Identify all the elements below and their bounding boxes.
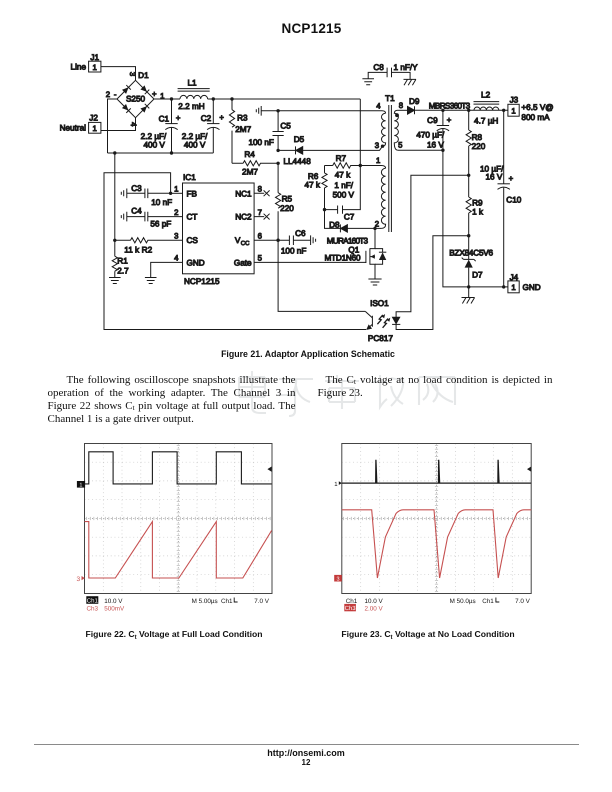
output rail D9 to J3: [415, 109, 508, 111]
svg-text:-: -: [114, 90, 117, 99]
ground below R1: [109, 278, 121, 284]
svg-text:Neutral: Neutral: [60, 124, 87, 133]
svg-text:5: 5: [258, 254, 263, 263]
VCC line down to opto collector: [278, 240, 365, 311]
svg-text:56 pF: 56 pF: [150, 220, 171, 229]
svg-text:MBRS360T3: MBRS360T3: [429, 101, 471, 110]
svg-text:Ch1: Ch1: [221, 598, 233, 605]
node dot R8 top: [467, 109, 470, 112]
diode D8 MURA160T3: [325, 210, 382, 246]
body text right column: [318, 374, 553, 400]
wire pin 5 to C9 bottom: [398, 149, 443, 151]
svg-text:4: 4: [174, 254, 179, 263]
inductor L2: [474, 90, 500, 125]
scope22 ch1 square wave: [85, 452, 272, 484]
svg-text:J3: J3: [510, 96, 519, 105]
resistor R2: [115, 238, 183, 255]
svg-text:GND: GND: [187, 258, 205, 267]
capacitor C10: [480, 110, 522, 287]
connector J3: [508, 96, 554, 122]
node dot rail/R3 top: [230, 97, 233, 100]
svg-text:47 k: 47 k: [335, 171, 351, 180]
svg-text:Ch1: Ch1: [482, 598, 494, 605]
svg-text:1: 1: [79, 483, 82, 489]
svg-text:8: 8: [399, 101, 403, 110]
pin 4 GND wire: [151, 262, 183, 277]
node dot C10 bottom: [502, 285, 505, 288]
svg-text:IC1: IC1: [183, 173, 196, 182]
svg-text:D1: D1: [138, 71, 149, 80]
svg-text:C6: C6: [295, 229, 306, 238]
svg-text:+: +: [447, 115, 452, 124]
node dot R4/VCC line: [276, 162, 279, 165]
scope23 ch3 marker: [334, 575, 342, 582]
scope23 center graticule: [342, 444, 531, 594]
svg-text:7.0 V: 7.0 V: [254, 598, 270, 605]
bridge diode lower-left: [122, 104, 129, 111]
svg-text:C7: C7: [344, 213, 355, 222]
svg-text:Line: Line: [71, 63, 87, 72]
scope22 readout line 1: [86, 596, 98, 604]
node dot R8 bottom: [467, 174, 470, 177]
svg-text:J4: J4: [510, 273, 519, 282]
resistor R6: [305, 166, 328, 210]
svg-text:GND: GND: [523, 283, 541, 292]
svg-text:T1: T1: [385, 94, 395, 103]
svg-text:1 k: 1 k: [472, 208, 484, 217]
ground at Q1 source: [368, 279, 381, 285]
footer url: [0, 748, 612, 758]
earth ground at C8 left: [362, 79, 374, 85]
figure 22 caption: [56, 629, 292, 639]
node dot D7 bottom: [467, 285, 470, 288]
svg-text:J1: J1: [90, 53, 99, 62]
svg-text:LL4448: LL4448: [283, 157, 311, 166]
svg-text:2M7: 2M7: [235, 125, 251, 134]
svg-text:7: 7: [258, 208, 262, 217]
capacitor C6: [278, 229, 310, 255]
svg-text:+: +: [152, 89, 157, 98]
footer rule: [34, 744, 579, 745]
scope figure 23: [334, 444, 531, 613]
node dot rail/C2 top: [212, 97, 215, 100]
svg-text:CS: CS: [187, 236, 199, 245]
resistor R5: [276, 163, 295, 240]
svg-text:L1: L1: [187, 78, 197, 87]
connector J4: [508, 273, 541, 293]
page title NCP1215: [6, 21, 612, 36]
scope23 border: [342, 444, 531, 594]
svg-text:L2: L2: [481, 90, 491, 99]
chassis ground at C8 right: [404, 79, 417, 85]
node dot VCC pin / C6: [276, 239, 279, 242]
inductor L1: [178, 78, 210, 111]
IC1 NCP1215: [174, 173, 262, 286]
wire HV rail down to R7 node: [359, 99, 361, 166]
svg-text:800 mA: 800 mA: [521, 113, 550, 122]
node dot FB: [169, 192, 172, 195]
svg-text:10 nF: 10 nF: [151, 198, 172, 207]
node dot T1 pin2 / Q1 drain: [373, 227, 376, 230]
svg-text:MTD1N60: MTD1N60: [325, 253, 361, 262]
svg-text:1: 1: [93, 124, 97, 133]
node dot C5 top: [276, 109, 279, 112]
svg-text:1: 1: [334, 481, 338, 488]
svg-text:S250: S250: [126, 94, 146, 103]
svg-text:7.0 V: 7.0 V: [515, 598, 531, 605]
svg-text:16 V: 16 V: [485, 173, 502, 182]
resistor R7: [325, 154, 361, 180]
node dot rail/C1: [170, 151, 173, 154]
svg-text:11 k: 11 k: [124, 245, 140, 254]
pin 7 NC2 wire with X: [254, 214, 270, 220]
wire pin 8 to D9: [398, 109, 408, 111]
svg-text:1: 1: [174, 185, 178, 194]
node dot R9 bottom: [467, 234, 470, 237]
bridge diode lower-right: [140, 106, 147, 113]
svg-text:100 nF: 100 nF: [281, 246, 307, 255]
svg-text:C1: C1: [159, 114, 170, 123]
wire J2 to bridge AC2: [101, 118, 136, 131]
svg-text:1 nF/Y: 1 nF/Y: [394, 63, 419, 72]
svg-text:C3: C3: [131, 184, 142, 193]
svg-text:2: 2: [106, 90, 110, 99]
svg-text:R8: R8: [472, 133, 483, 142]
svg-text:NCP1215: NCP1215: [184, 277, 220, 286]
node dot C10 top: [502, 109, 505, 112]
top HV rail (bridge + to L1): [154, 98, 180, 100]
svg-text:10.0 V: 10.0 V: [365, 598, 384, 605]
figure 21 caption: [2, 349, 612, 359]
bridge diode upper-right: [140, 85, 147, 92]
svg-text:+: +: [176, 114, 181, 123]
pin 6 VCC wire: [254, 239, 278, 241]
T1 primary winding 1-2: [381, 168, 385, 228]
bridge rectifier D1 S250: [106, 71, 165, 127]
wire node Y to opto LED cathode: [396, 236, 469, 330]
light arrows: [377, 315, 382, 324]
svg-text:500 V: 500 V: [333, 190, 355, 199]
footer page number: [0, 758, 612, 767]
svg-text:J2: J2: [89, 114, 98, 123]
FB loop wire (opto emitter to FB): [104, 173, 366, 330]
svg-text:Ch3: Ch3: [87, 605, 99, 612]
MOSFET Q1 MTD1N60: [325, 228, 387, 279]
SCOPES: [77, 444, 532, 613]
svg-text:47 k: 47 k: [305, 181, 321, 190]
svg-text:3: 3: [128, 72, 137, 76]
capacitor C4: [121, 206, 171, 228]
body text left column: [48, 374, 296, 427]
node dot C7/R6/D8: [323, 208, 326, 211]
wire bridge minus to bottom rail: [108, 99, 118, 153]
diode D5 LL4448: [278, 135, 382, 166]
svg-text:8: 8: [258, 185, 262, 194]
bridge diode upper-left: [122, 87, 129, 94]
svg-text:1: 1: [511, 283, 515, 292]
figure 23 caption: [310, 629, 546, 639]
WATERMARK: [239, 371, 455, 416]
capacitor C5: [248, 111, 291, 151]
svg-text:500mV: 500mV: [104, 605, 125, 612]
svg-text:2.7: 2.7: [117, 267, 129, 276]
opto transistor: [365, 311, 372, 329]
svg-text:R1: R1: [117, 257, 128, 266]
ground at IC GND: [145, 278, 157, 284]
scope23 ch3 wave: [342, 510, 531, 578]
svg-text:R3: R3: [237, 114, 248, 123]
svg-text:10.0 V: 10.0 V: [104, 598, 123, 605]
capacitor C8: [368, 63, 418, 79]
capacitor C7: [325, 166, 361, 222]
node dot C9 top: [441, 109, 444, 112]
svg-text:2.00 V: 2.00 V: [365, 605, 384, 612]
scope22 border: [85, 444, 273, 594]
svg-text:R2: R2: [142, 245, 153, 254]
resistor R9: [466, 175, 484, 235]
optocoupler ISO1 PC817: [365, 299, 400, 343]
diode D9 MBRS360T3: [408, 97, 471, 114]
svg-text:2: 2: [174, 208, 178, 217]
capacitor C3: [121, 184, 172, 207]
svg-text:R9: R9: [472, 198, 483, 207]
svg-text:D7: D7: [472, 271, 483, 280]
svg-text:+: +: [219, 113, 224, 122]
node dot rail/CS divider: [113, 151, 116, 154]
connector J1: [71, 53, 101, 72]
resistor R8: [466, 110, 486, 175]
node dot R7 line / rail drop: [359, 164, 362, 167]
svg-text:400 V: 400 V: [184, 140, 206, 149]
svg-text:+: +: [509, 174, 514, 183]
svg-text:1 nF/: 1 nF/: [334, 181, 353, 190]
shield stub at C6 right: [311, 235, 316, 245]
svg-text:16 V: 16 V: [427, 141, 444, 150]
svg-text:C9: C9: [427, 116, 438, 125]
zener D7 BZX84C5V6: [449, 236, 493, 287]
node dot C9 bottom: [441, 149, 444, 152]
wire node X to opto LED anode: [396, 175, 469, 317]
svg-text:100 nF: 100 nF: [248, 138, 274, 147]
svg-text:1: 1: [511, 106, 515, 115]
resistor R4: [232, 150, 278, 177]
T1 core: [389, 105, 392, 232]
svg-text:1: 1: [93, 63, 97, 72]
shield stub at C5 top line: [256, 106, 261, 116]
svg-text:3: 3: [174, 231, 178, 240]
scope22 ch1 marker: [77, 481, 85, 488]
svg-text:BZX84C5V6: BZX84C5V6: [449, 248, 493, 257]
svg-text:+6.5 V@: +6.5 V@: [521, 103, 553, 112]
svg-text:R4: R4: [244, 150, 255, 159]
T1 secondary winding 8-5: [394, 110, 398, 150]
svg-text:C4: C4: [131, 206, 142, 215]
svg-text:R5: R5: [282, 195, 293, 204]
scope23 trigger arrow: [527, 467, 531, 472]
svg-text:4: 4: [376, 102, 381, 111]
svg-text:4.7 µH: 4.7 µH: [474, 117, 498, 126]
svg-text:C8: C8: [373, 63, 384, 72]
svg-text:2: 2: [375, 219, 379, 228]
svg-text:M 5.00µs: M 5.00µs: [192, 598, 218, 605]
svg-text:NC1: NC1: [235, 189, 252, 198]
svg-text:C10: C10: [506, 196, 521, 205]
wire rail down to CS divider: [114, 153, 116, 240]
svg-text:Gate: Gate: [234, 258, 252, 267]
svg-text:C2: C2: [201, 114, 212, 123]
node dot pin 3: [381, 145, 384, 148]
scope23 grid: [342, 444, 531, 594]
svg-text:3: 3: [375, 141, 379, 150]
pin 1 FB wire: [171, 192, 183, 194]
opto LED: [393, 317, 400, 323]
scope22 trigger arrow: [267, 467, 271, 472]
svg-text:2M7: 2M7: [242, 168, 258, 177]
svg-text:CT: CT: [187, 213, 198, 222]
scope23 ch1 spikes: [342, 460, 531, 483]
scope figure 22: [77, 444, 273, 613]
scope22 ch3 sawtooth: [85, 522, 272, 578]
svg-text:3: 3: [336, 577, 339, 583]
wire R7 node to T1 pin 1: [360, 166, 385, 169]
transformer T1: [375, 94, 403, 232]
secondary phase dot: [395, 113, 399, 117]
svg-text:4: 4: [129, 122, 138, 127]
chassis ground below D7: [462, 287, 475, 304]
secondary ground rail: [443, 150, 508, 287]
pin 2 CT wire: [148, 216, 183, 218]
scope22 center graticule: [85, 444, 273, 594]
svg-text:ISO1: ISO1: [370, 299, 389, 308]
svg-text:5: 5: [398, 141, 403, 150]
svg-text:6: 6: [258, 231, 262, 240]
resistor R3: [229, 99, 251, 163]
svg-text:D5: D5: [294, 135, 305, 144]
capacitor C1: [141, 99, 181, 153]
svg-text:CC: CC: [241, 240, 250, 247]
wire C5-top line to T1 pin 4: [261, 111, 385, 114]
svg-text:FB: FB: [187, 189, 198, 198]
node dot D5 line / VCC line: [276, 149, 279, 152]
scope23 readout line 2: [344, 604, 356, 611]
svg-text:470 µF/: 470 µF/: [416, 131, 445, 140]
T1 aux winding 4-3: [382, 113, 386, 146]
top HV rail after L1: [208, 98, 361, 100]
svg-text:R7: R7: [336, 154, 347, 163]
gate wire pin 5 to Q1: [254, 261, 366, 263]
svg-text:400 V: 400 V: [143, 140, 165, 149]
capacitor C9: [416, 110, 451, 150]
svg-text:Ch1: Ch1: [87, 598, 99, 605]
connector J2: [60, 114, 101, 134]
svg-text:3: 3: [77, 576, 81, 583]
node dot CS divider: [113, 239, 116, 242]
svg-text:2.2 mH: 2.2 mH: [178, 102, 204, 111]
svg-text:M 50.0µs: M 50.0µs: [450, 598, 476, 605]
pin 8 NC1 wire with X: [254, 190, 270, 196]
resistor R1: [112, 240, 129, 277]
svg-text:C5: C5: [280, 121, 291, 130]
svg-text:D8: D8: [329, 220, 340, 229]
svg-text:1: 1: [376, 156, 380, 165]
node dot rail/C1 top: [170, 97, 173, 100]
svg-text:Ch3: Ch3: [345, 605, 357, 612]
svg-text:NC2: NC2: [235, 213, 252, 222]
svg-text:D9: D9: [409, 97, 420, 106]
svg-text:220: 220: [472, 142, 486, 151]
svg-text:MURA160T3: MURA160T3: [327, 236, 369, 245]
wire J1 to bridge AC1: [101, 67, 136, 81]
svg-text:Ch1: Ch1: [346, 598, 358, 605]
svg-text:220: 220: [280, 204, 294, 213]
scope22 grid: [85, 444, 273, 594]
svg-text:PC817: PC817: [368, 334, 393, 343]
bottom rail: [108, 152, 214, 154]
capacitor C2: [182, 99, 225, 153]
